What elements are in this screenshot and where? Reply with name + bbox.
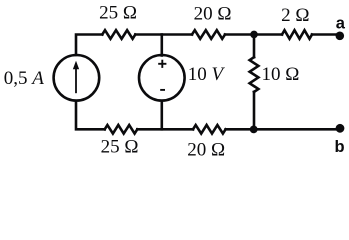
terminal a dot: [336, 32, 345, 41]
resistor R6 20 ohm bottom: [193, 125, 226, 134]
wire top-left segment: [76, 35, 102, 56]
wire right branch lower lead: [253, 92, 256, 129]
svg-text:0,5 A: 0,5 A: [4, 68, 45, 89]
resistor R5 25 ohm bottom: [105, 125, 138, 134]
wire top middle-right: [225, 33, 282, 36]
svg-text:10 V: 10 V: [188, 64, 226, 85]
svg-text:10 Ω: 10 Ω: [262, 64, 300, 85]
svg-text:20 Ω: 20 Ω: [187, 140, 225, 159]
current source I1 circle: [54, 55, 100, 101]
terminal b dot: [336, 124, 345, 133]
svg-text:b: b: [335, 138, 345, 156]
wire right branch upper lead: [253, 35, 256, 58]
wire to terminal b: [226, 128, 340, 131]
node dot bottom: [250, 125, 258, 133]
wire bottom middle-left: [137, 128, 193, 131]
wire voltage source stem top: [161, 35, 164, 56]
voltage source minus sign: [160, 89, 165, 91]
svg-text:a: a: [336, 15, 346, 33]
svg-text:25 Ω: 25 Ω: [99, 3, 137, 24]
resistor R4 10 ohm vertical: [250, 57, 259, 92]
current source I1 arrow: [73, 61, 79, 93]
voltage source V1 circle: [139, 55, 185, 101]
svg-text:20 Ω: 20 Ω: [194, 4, 232, 25]
wire to terminal a: [312, 33, 340, 36]
resistor R1 25 ohm top: [102, 30, 135, 39]
wire voltage source stem bottom: [161, 101, 164, 130]
node dot top: [250, 31, 258, 39]
svg-text:2 Ω: 2 Ω: [281, 5, 309, 26]
wire top middle-left: [135, 33, 192, 36]
wire bottom-left segment: [76, 101, 105, 130]
voltage source plus sign: [158, 60, 166, 68]
resistor R2 20 ohm top: [192, 30, 225, 39]
resistor R3 2 ohm: [282, 30, 312, 39]
svg-text:25 Ω: 25 Ω: [101, 137, 139, 158]
